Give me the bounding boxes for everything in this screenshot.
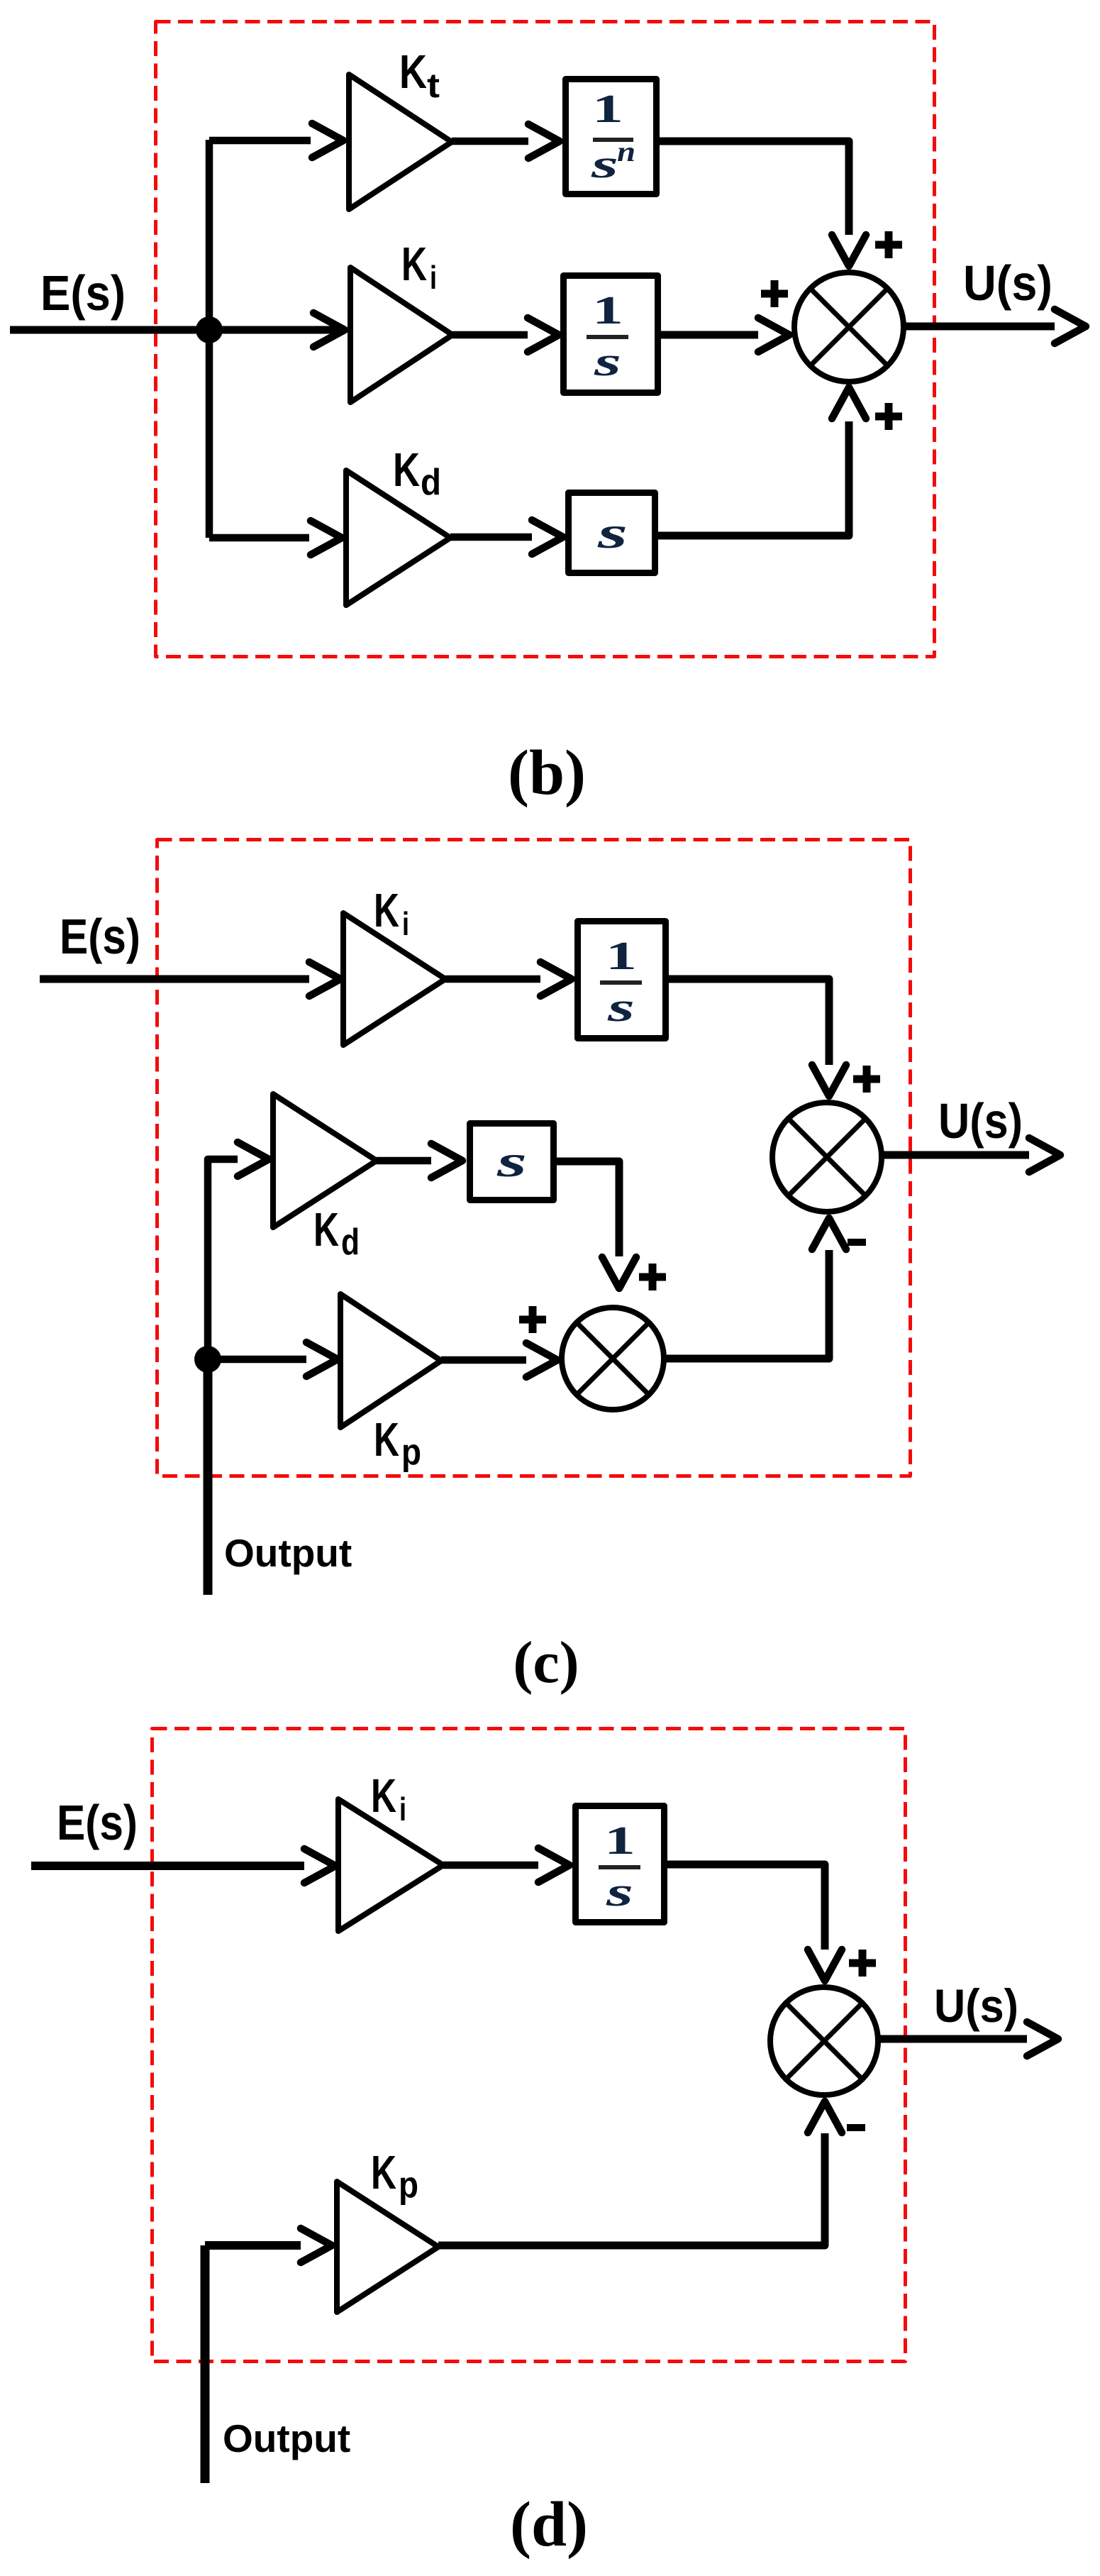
arrowhead into summer left (b) [758, 318, 789, 352]
block s (c) [470, 1124, 554, 1200]
svg-text:n: n [617, 136, 635, 167]
svg-text:E(s): E(s) [40, 265, 126, 321]
svg-text:Output: Output [224, 1531, 352, 1575]
label Ki (d) [371, 1769, 406, 1828]
amplifier Ki (d) [338, 1799, 443, 1931]
svg-text:K: K [371, 1769, 396, 1823]
wire: branch to Kt (b) [209, 137, 311, 145]
svg-text:K: K [399, 45, 427, 99]
frame: dashed boundary (d) [152, 1729, 906, 2362]
wire: E(s) input line (b) [10, 326, 340, 334]
svg-text:U(s): U(s) [938, 1093, 1023, 1149]
sign + bottom input (b) [875, 403, 902, 430]
svg-text:K: K [374, 884, 399, 937]
arrowhead into 1/s^n (b) [528, 124, 560, 158]
node: output pickoff (c) [194, 1346, 221, 1373]
wire: 1/s to summer (b) [661, 331, 758, 339]
svg-text:1: 1 [604, 1819, 635, 1863]
arrowhead into Kp (c) [306, 1342, 338, 1376]
svg-text:p: p [401, 1432, 421, 1473]
label Kp (d) [371, 2146, 418, 2206]
svg-text:1: 1 [606, 934, 637, 978]
arrowhead output (b) [1055, 309, 1086, 343]
wire: s to summer (b) [658, 421, 849, 536]
wire: 1/s to summer (d) [667, 1864, 825, 1950]
wire: E(s) input line (d) [31, 1862, 304, 1870]
amplifier Kd (b) [346, 470, 450, 605]
wire: Kp to summer (d) [438, 2133, 825, 2245]
svg-text:(b): (b) [508, 738, 586, 808]
amplifier Kd (c) [273, 1094, 377, 1227]
sign - summer1 bottom (c) [848, 1239, 866, 1246]
wire: Ki to 1/s (b) [452, 331, 528, 339]
svg-text:d: d [421, 462, 441, 503]
svg-text:1: 1 [592, 289, 623, 333]
wire: Ki to 1/s (c) [445, 975, 540, 983]
frame: dashed boundary (c) [157, 840, 911, 1476]
svg-text:s: s [496, 1136, 527, 1186]
sign + summer1 top (c) [853, 1066, 880, 1093]
svg-text:d: d [341, 1222, 360, 1263]
arrowhead into Ki (b) [313, 313, 345, 347]
arrowhead into summer1 top (c) [812, 1065, 846, 1096]
svg-text:U(s): U(s) [934, 1979, 1018, 2032]
summing junction 2 (c) [562, 1308, 664, 1410]
wire: summer to U(s) output (b) [904, 323, 1055, 331]
sign + top input (b) [875, 231, 902, 258]
wire: Ki to 1/s (d) [443, 1862, 538, 1869]
wire: E(s) input line (c) [40, 975, 309, 983]
arrowhead into Kt (b) [312, 123, 343, 157]
wire: output feedback line down (c) [204, 1359, 213, 1595]
wire: branch to Kd (b) [209, 534, 309, 542]
svg-text:t: t [427, 67, 440, 105]
arrowhead into summer2 left (c) [526, 1343, 557, 1377]
summing junction (d) [770, 1987, 878, 2095]
block 1/s (b) [564, 276, 658, 393]
arrowhead into summer top (b) [832, 235, 866, 266]
label Kd (c) [313, 1203, 360, 1263]
svg-text:(d): (d) [510, 2489, 588, 2560]
svg-text:s: s [593, 338, 621, 385]
label Ki (b) [401, 238, 437, 296]
arrowhead output (d) [1027, 2022, 1058, 2056]
sign + summer2 top (c) [639, 1264, 666, 1290]
label Kd (b) [393, 443, 441, 503]
block 1/s (d) [576, 1806, 665, 1923]
wire: Kt to 1/s^n (b) [452, 138, 528, 145]
block 1/s (c) [578, 922, 666, 1039]
sign - summer bottom (d) [847, 2124, 865, 2131]
svg-text:1: 1 [592, 87, 623, 131]
arrowhead into Kd (c) [238, 1142, 269, 1176]
wire: Kp to summer2 (c) [441, 1356, 526, 1364]
svg-text:i: i [430, 259, 437, 296]
wire: node up to Kd row (c) [208, 1159, 238, 1359]
svg-text:i: i [399, 1791, 406, 1828]
frame: dashed boundary (b) [156, 22, 935, 657]
svg-text:p: p [399, 2165, 418, 2206]
amplifier Kp (d) [337, 2182, 438, 2312]
amplifier Ki (b) [350, 267, 452, 402]
wire: output corner to Kp (d) [205, 2241, 301, 2250]
arrowhead into 1/s (d) [538, 1848, 570, 1882]
arrowhead into Ki (c) [309, 962, 340, 996]
wire: summer to U(s) (d) [878, 2035, 1027, 2043]
arrowhead into 1/s (c) [540, 962, 572, 996]
wire: Kd to s (c) [377, 1157, 431, 1165]
arrowhead into summer bottom (d) [808, 2101, 842, 2133]
wire: summer2 to summer1 (c) [662, 1250, 829, 1359]
label Kt (b) [399, 45, 440, 105]
label Ki (c) [374, 884, 409, 942]
sign + summer2 left (c) [519, 1306, 546, 1333]
block s (b) [569, 493, 655, 573]
wire: 1/s to summer1 (c) [669, 979, 829, 1065]
wire: 1/s^n to summer (b) [660, 141, 849, 235]
svg-text:E(s): E(s) [60, 909, 140, 964]
svg-text:s: s [596, 507, 628, 558]
wire: summer1 to U(s) (c) [882, 1151, 1029, 1159]
wire: node to Kp (c) [208, 1356, 306, 1364]
arrowhead into s (b) [532, 520, 563, 554]
svg-text:K: K [401, 238, 427, 291]
wire: Kd to s (b) [450, 534, 532, 541]
svg-text:K: K [313, 1203, 339, 1256]
arrowhead into Ki (d) [304, 1849, 335, 1883]
arrowhead into summer1 bottom (c) [812, 1218, 846, 1249]
label Kp (c) [374, 1413, 421, 1473]
arrowhead into summer2 top (c) [602, 1257, 636, 1288]
summing junction (b) [794, 272, 904, 382]
svg-text:K: K [371, 2146, 396, 2199]
arrowhead into Kd (b) [311, 521, 342, 555]
svg-text:s: s [606, 984, 635, 1030]
amplifier Kp (c) [340, 1294, 441, 1427]
wire: s to summer2 (c) [557, 1161, 619, 1256]
arrowhead into Kp (d) [301, 2228, 332, 2262]
arrowhead output (c) [1029, 1138, 1060, 1172]
arrowhead into s (c) [431, 1144, 462, 1178]
arrowhead into 1/s (b) [528, 318, 559, 352]
wire: output feedback line down (d) [201, 2245, 210, 2483]
svg-text:(c): (c) [513, 1630, 579, 1696]
svg-text:i: i [402, 905, 409, 942]
svg-text:Output: Output [223, 2416, 350, 2460]
svg-text:U(s): U(s) [963, 255, 1052, 311]
svg-text:K: K [393, 443, 420, 497]
summing junction 1 (c) [772, 1102, 882, 1212]
node: pickoff point (b) [196, 316, 223, 343]
svg-text:K: K [374, 1413, 399, 1466]
arrowhead into summer top (d) [808, 1950, 842, 1981]
svg-text:s: s [590, 143, 618, 187]
block 1/s^n (b) [566, 79, 657, 194]
svg-text:s: s [605, 1869, 633, 1915]
sign + left input (b) [761, 280, 788, 307]
arrowhead into summer bottom (b) [832, 387, 866, 419]
amplifier Kt (b) [349, 74, 452, 209]
sign + summer top (d) [849, 1950, 876, 1977]
wire: vertical branch (b) [206, 140, 213, 538]
svg-text:E(s): E(s) [57, 1795, 138, 1850]
amplifier Ki (c) [343, 913, 445, 1045]
